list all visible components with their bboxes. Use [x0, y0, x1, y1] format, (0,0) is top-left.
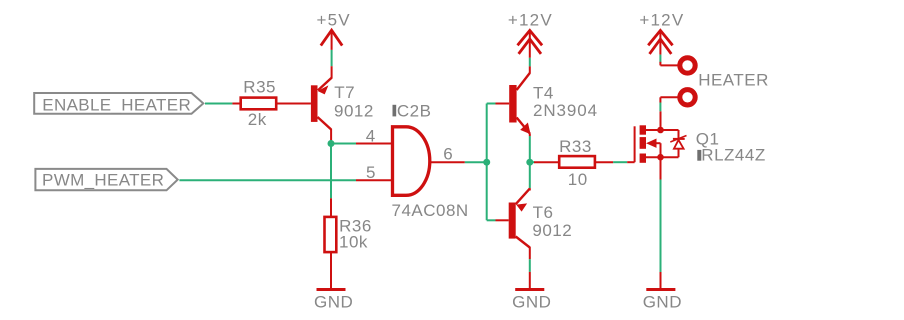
svg-text:10: 10 — [568, 170, 588, 189]
pad 1 lead — [659, 62, 661, 66]
net label PWM_HEATER — [35, 169, 177, 190]
wire +5V to T7 emitter — [331, 50, 333, 66]
wire +12V to HEATER pad 1 — [659, 55, 661, 63]
ground GND (T6) — [512, 272, 551, 312]
wire +12V to T4 collector — [529, 58, 531, 67]
drain junction dot — [657, 127, 664, 134]
svg-text:2k: 2k — [248, 110, 267, 129]
connector HEATER — [660, 58, 769, 105]
svg-text:T6: T6 — [533, 203, 554, 222]
IC2B pin 6 output stub — [431, 161, 465, 163]
wire IC2B output to base bus — [465, 161, 487, 163]
IC2B pin 4 stub — [356, 143, 392, 145]
node B: base bus junction — [483, 159, 490, 166]
resistor R36 — [325, 217, 372, 289]
svg-text:+12V: +12V — [508, 10, 553, 29]
transistor T7 — [311, 66, 374, 140]
resistor R33 — [534, 137, 613, 189]
node C: emitter junction — [526, 159, 533, 166]
transistor T6 — [496, 188, 573, 259]
svg-text:+5V: +5V — [317, 10, 351, 29]
svg-text:PWM_HEATER: PWM_HEATER — [42, 171, 164, 190]
pad 2 circle — [680, 90, 695, 105]
wire ENABLE_HEATER to R35 — [205, 103, 232, 105]
svg-text:HEATER: HEATER — [698, 71, 769, 90]
wire bus to T6 base — [487, 219, 496, 221]
svg-text:T4: T4 — [533, 84, 554, 103]
supply +12V (T4) — [508, 10, 553, 57]
wire bus to T4 base — [487, 103, 496, 105]
wire node C to R33 — [530, 161, 535, 163]
source junction dot — [657, 154, 664, 161]
pad 1 circle — [680, 58, 695, 73]
wire PWM_HEATER to IC2B pin 5 — [179, 179, 356, 181]
wire HEATER pad 2 to Q1 drain — [659, 103, 661, 112]
svg-text:9012: 9012 — [532, 221, 572, 240]
wire node C to T6 emitter — [529, 162, 531, 188]
IC2B pin 5 stub — [356, 179, 392, 181]
drain lead — [660, 111, 662, 130]
ground GND (Q1) — [643, 272, 682, 311]
source lead — [660, 157, 662, 179]
svg-text:6: 6 — [443, 145, 453, 164]
wire node A to IC2B pin 4 — [331, 143, 356, 145]
AND gate IC2B 74AC08N — [392, 101, 469, 220]
svg-text:ENABLE_HEATER: ENABLE_HEATER — [42, 96, 191, 115]
supply +5V — [317, 10, 351, 50]
svg-text:T7: T7 — [334, 83, 355, 102]
svg-text:5: 5 — [366, 163, 376, 182]
wire base bus vertical — [486, 104, 488, 221]
wire T4 emitter to node C — [529, 136, 531, 162]
svg-text:9012: 9012 — [334, 101, 374, 120]
pad 2 lead — [660, 96, 679, 98]
net label ENABLE_HEATER — [34, 93, 203, 115]
supply +12V (HEATER) — [639, 10, 684, 54]
body diode of Q1 — [678, 130, 680, 139]
ground GND (R36) — [314, 290, 353, 312]
node A: T7 collector junction — [328, 140, 335, 147]
transistor T4 — [496, 66, 598, 136]
svg-text:4: 4 — [366, 127, 376, 146]
svg-text:+12V: +12V — [639, 10, 684, 29]
svg-text:GND: GND — [314, 292, 353, 311]
svg-text:GND: GND — [512, 292, 551, 311]
svg-text:C2B: C2B — [397, 101, 432, 120]
wire R33 to Q1 gate — [613, 161, 627, 163]
svg-text:RLZ44Z: RLZ44Z — [701, 146, 765, 165]
svg-text:GND: GND — [643, 292, 682, 311]
svg-text:2N3904: 2N3904 — [533, 101, 598, 120]
svg-text:R33: R33 — [559, 137, 592, 156]
svg-text:74AC08N: 74AC08N — [392, 201, 469, 220]
wire T6 collector to GND — [529, 259, 531, 272]
resistor R35 — [232, 78, 311, 129]
svg-text:10k: 10k — [339, 233, 368, 252]
wire node A down to R36 (crosses PWM wire) — [330, 140, 332, 198]
wire Q1 source to GND — [660, 180, 662, 273]
svg-text:R35: R35 — [243, 78, 276, 97]
mosfet Q1 IRLZ44Z — [627, 111, 766, 179]
wire node A branch to R36 — [330, 198, 332, 217]
